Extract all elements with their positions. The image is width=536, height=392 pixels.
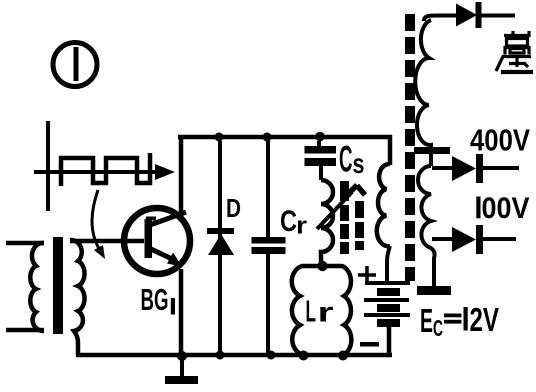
label high voltage 压 [496,57,533,73]
input transformer secondary winding [70,240,85,355]
signal arrow to base [92,190,105,259]
label Ec=12V [420,301,499,341]
diode HV [456,2,515,28]
wire battery to bottom rail [387,327,392,357]
svg-text:E: E [420,302,433,339]
inductor Lr right side [322,266,351,355]
label 100V [476,197,480,219]
wire bottom rail [76,353,392,358]
label Cr [280,205,307,240]
variable inductor arrow [317,185,365,229]
input pulse waveform trace [61,153,150,186]
output transformer primary winding [377,164,390,246]
inductor Lr left side [292,266,322,355]
diode 400V [432,154,519,183]
wire top rail [178,135,392,140]
capacitor Cr [252,237,286,254]
adjustable core bar right [355,201,364,250]
wire base lead [70,239,144,244]
svg-text:L: L [306,294,317,329]
svg-text:00V: 00V [482,192,530,225]
output transformer secondary bottom section [418,166,435,287]
tap bar 400V [414,147,450,154]
ground secondary [417,286,451,295]
node diode bottom [216,351,225,360]
wire diode branch [218,141,222,353]
variable inductor winding [321,180,333,262]
battery Ec [364,281,410,327]
input transformer primary lead bottom [6,328,44,333]
node diode top [215,133,224,142]
node Cr bottom [267,351,276,360]
node Lr top [317,261,327,271]
wire collector vertical [179,137,184,213]
svg-text:C: C [339,139,353,180]
output transformer secondary top section [415,20,431,166]
svg-text:2V: 2V [470,301,500,338]
label high voltage 高 [504,31,529,55]
wire box right edge [388,135,393,165]
svg-text:C: C [280,205,297,238]
input transformer core [53,237,63,334]
node Lr bottom right [338,351,348,361]
svg-text:D: D [226,193,241,223]
label Cs [339,139,365,180]
figure number 1 [53,43,97,87]
svg-text:BG: BG [141,282,169,317]
input transformer primary lead top [6,241,44,246]
battery plus sign [358,266,376,284]
wire Cr branch [266,140,270,353]
input transformer primary winding [30,243,44,331]
label BG1 [141,282,176,317]
capacitor Cs [305,141,337,180]
svg-text:400V: 400V [470,123,530,158]
diode D [207,228,234,255]
svg-text:C: C [433,315,443,341]
output transformer core (dashed) [405,14,415,281]
diode 100V [432,225,516,254]
node Cr top [263,133,272,142]
output transformer secondary top lead [424,16,456,22]
wire emitter vertical [179,269,184,357]
battery minus sign [360,342,379,347]
wire winding to battery [387,246,390,281]
node emitter bottom [177,351,187,361]
ground main [165,356,198,384]
adjustable core bar left [340,181,349,254]
input pulse waveform axis [34,121,175,211]
svg-text:r: r [296,213,307,240]
node Cs top [315,132,325,142]
svg-text:s: s [353,148,365,179]
node Lr bottom left [299,351,309,361]
transistor BG1 [124,208,190,274]
svg-text:r: r [318,297,334,328]
label Lr [306,294,334,329]
